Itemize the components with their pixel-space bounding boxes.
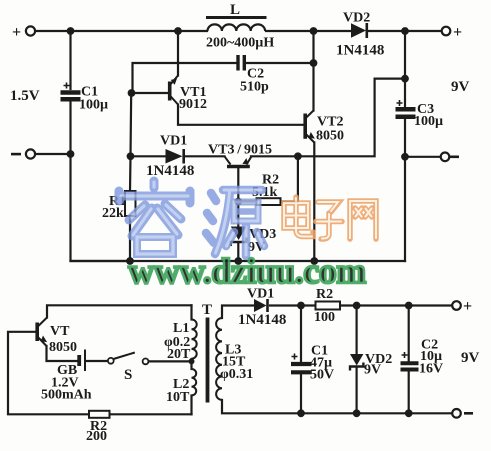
svg-text:100µ: 100µ [79, 98, 108, 113]
wire left column through R1 to bottom rail [129, 156, 132, 191]
svg-text:L: L [230, 2, 240, 18]
resistor R2 200 [89, 411, 110, 418]
node R2 left junction [234, 198, 242, 206]
battery GB [79, 350, 85, 372]
watermark orange glyph dian [284, 197, 313, 237]
wire VT1 base [132, 92, 169, 94]
wire VD1 cathode to plus terminal [270, 304, 316, 306]
node top-rail C2/VT2 junction [310, 27, 318, 35]
transistor VT1 [170, 76, 178, 105]
watermark blue glyph yuan [206, 190, 264, 256]
svg-text:+: + [463, 298, 472, 315]
node VD1 anode junction [127, 152, 135, 160]
diode VD1 [166, 149, 184, 164]
node top-rail C3 junction [401, 27, 409, 35]
node C2 VT2-collector junction [310, 59, 318, 67]
node VT2 emitter bottom rail junction [310, 257, 318, 265]
svg-text:www.dziuu.com: www.dziuu.com [128, 251, 366, 291]
wire primary winding column [190, 305, 192, 319]
svg-text:1.5V: 1.5V [10, 88, 40, 104]
terminal minus left [26, 149, 35, 158]
wire VT3 collector to right riser [251, 79, 405, 157]
node VT1 base junction [128, 89, 136, 97]
svg-text:S: S [124, 367, 132, 383]
node top-rail C1 junction [67, 27, 75, 35]
node C2 bottom junction [405, 409, 413, 417]
wire VT emitter to battery [47, 346, 78, 361]
wire VT1 emitter feed [177, 31, 179, 76]
wire C1 branch vertical [69, 31, 71, 89]
wire VD3 to bottom rail [237, 244, 239, 262]
svg-text:VT: VT [50, 324, 70, 339]
node C1 minus-wire junction [67, 150, 75, 158]
svg-text:10T: 10T [166, 390, 190, 405]
svg-text:1N4148: 1N4148 [238, 312, 286, 328]
wire VT2 emitter down across to bottom rail [313, 143, 315, 262]
svg-text:9V: 9V [364, 363, 381, 378]
label minus bottom [464, 412, 473, 415]
switch S [108, 353, 149, 365]
svg-text:200~400µH: 200~400µH [206, 36, 274, 51]
svg-text:22k: 22k [102, 206, 124, 221]
resistor R1 [125, 191, 136, 216]
node transformer tap [189, 358, 195, 364]
node top-rail VT1 emitter junction [174, 27, 182, 35]
wire secondary top to VD1 [222, 306, 254, 319]
watermark orange glyph wang [350, 201, 376, 239]
svg-text:510p: 510p [240, 80, 269, 95]
node VD2 bottom junction [353, 409, 361, 417]
wire R2 right riser [297, 156, 299, 201]
transistor VT3 [225, 156, 252, 166]
svg-text:VT2: VT2 [317, 115, 343, 130]
resistor R2 5.1k [257, 198, 281, 205]
wire R2 row [238, 200, 256, 202]
svg-text:50V: 50V [310, 368, 334, 383]
wire battery to switch [86, 360, 108, 362]
wire right column C3 [404, 31, 406, 107]
wire primary bottom R2 to transformer [110, 413, 192, 415]
node VD2 top junction [353, 302, 361, 310]
svg-text:T: T [202, 302, 212, 318]
svg-text:8050: 8050 [316, 129, 344, 144]
svg-text:VD2: VD2 [343, 11, 370, 26]
node R1 bottom rail junction [126, 257, 134, 265]
transformer primary winding L2 [192, 369, 197, 395]
capacitor C3 [396, 100, 416, 117]
svg-text:VT3 / 9015: VT3 / 9015 [208, 143, 272, 158]
watermark orange glyph zi [316, 202, 342, 239]
capacitor C1 bottom [291, 354, 312, 373]
wire VT3 base down to R2 node [237, 168, 239, 226]
diode VD2 [351, 23, 367, 38]
capacitor C2 bottom [401, 352, 419, 370]
transformer core [206, 318, 210, 403]
wire VT collector to primary top [47, 305, 192, 317]
transformer primary winding L1 [192, 320, 197, 359]
wire VT base to left column [8, 332, 89, 415]
transistor VT2 [305, 111, 314, 143]
svg-text:100µ: 100µ [414, 114, 443, 129]
wire VT2 collector column [312, 31, 314, 111]
svg-text:200: 200 [86, 429, 107, 444]
svg-text:16V: 16V [419, 362, 443, 377]
node R2 feedback junction [294, 152, 302, 160]
terminal plus left [26, 26, 35, 35]
wire bottom rail [71, 260, 406, 262]
wire VT1 collector down and right to VT2 base [178, 105, 304, 125]
diode VD1 bottom [254, 299, 268, 312]
capacitor C1 [61, 83, 81, 100]
wire right minus terminal [405, 156, 440, 158]
node C2 top junction [405, 302, 413, 310]
svg-text:+: + [453, 24, 462, 41]
wire left minus terminal to C1 [35, 153, 71, 155]
svg-text:+: + [12, 24, 21, 41]
svg-text:20T: 20T [167, 347, 191, 362]
wire top positive rail [35, 30, 207, 32]
svg-text:8050: 8050 [49, 340, 77, 355]
node right minus junction [401, 153, 409, 161]
svg-text:100: 100 [314, 310, 335, 325]
label minus left [11, 153, 21, 156]
terminal minus bottom [452, 409, 461, 418]
inductor L [206, 18, 267, 32]
wire C2 drive line left section [133, 63, 237, 93]
svg-text:9012: 9012 [179, 97, 207, 112]
svg-text:φ0.31: φ0.31 [220, 367, 253, 382]
zener VD2 bottom [350, 354, 363, 371]
transistor VT [37, 318, 47, 347]
zener VD3 [231, 227, 247, 247]
wire C2 right to VT2 collector column [246, 62, 314, 64]
svg-text:1N4148: 1N4148 [336, 43, 384, 59]
wire feedback line VD1 anode [131, 155, 166, 157]
capacitor C2 [238, 55, 244, 71]
node VD3 bottom rail junction [234, 257, 242, 265]
svg-text:L1: L1 [173, 321, 189, 336]
wire VD2 branch [356, 306, 358, 355]
node C3 feedback junction [401, 75, 409, 83]
svg-text:VD1: VD1 [160, 134, 187, 149]
svg-text:500mAh: 500mAh [41, 388, 92, 403]
label minus right [450, 156, 459, 159]
wire C2 branch [408, 306, 410, 362]
wire C1 branch [300, 306, 302, 363]
terminal plus right [442, 27, 451, 36]
terminal minus right [441, 153, 450, 162]
wire VD1 cathode to VT3 emitter [186, 155, 225, 157]
node C1 top junction [297, 302, 305, 310]
transformer secondary winding L3 [216, 318, 222, 400]
svg-text:9V: 9V [451, 79, 470, 95]
wire switch to tap [149, 360, 192, 362]
wire secondary bottom [222, 400, 452, 413]
node C1 bottom junction [297, 409, 305, 417]
wire left column down to VD1 node [129, 93, 132, 156]
watermark blue glyph rong [119, 181, 190, 254]
resistor R2 100 [316, 302, 341, 310]
svg-text:9V: 9V [461, 350, 480, 366]
terminal plus bottom [452, 301, 461, 310]
